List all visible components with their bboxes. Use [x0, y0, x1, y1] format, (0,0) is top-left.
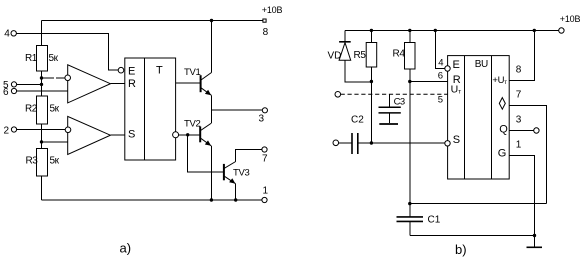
- TV1 base bar: [200, 75, 202, 92]
- flip-flop U1 box: [125, 58, 176, 160]
- node junction ground: [533, 234, 536, 237]
- timer E bubble: [445, 66, 450, 71]
- TV2 emitter arrow: [205, 140, 211, 145]
- svg-text:VD: VD: [328, 51, 342, 62]
- TV2 base bar: [199, 127, 201, 143]
- node junction TV2 base / TV3 branch: [186, 133, 189, 136]
- node junction TV3 emitter / bottom rail: [234, 198, 237, 201]
- node junction R5/VD bottom: [370, 80, 373, 83]
- resistor R4: [393, 30, 416, 203]
- terminal 6: [11, 88, 16, 93]
- terminal 7: [262, 147, 267, 152]
- flip-flop Q bubble: [173, 132, 179, 138]
- wire terminal2 to comparator2 bubble: [17, 129, 66, 131]
- svg-text:S: S: [128, 129, 135, 141]
- terminal 2: [11, 127, 16, 132]
- wire top +10V rail b: [345, 29, 559, 31]
- node junction R4 bottom: [408, 80, 411, 83]
- node junction TV2 emitter / bottom rail: [210, 198, 213, 201]
- wire pin 1 to ground: [509, 156, 534, 236]
- svg-text:5к: 5к: [50, 156, 60, 167]
- node junction pin8 / rail: [533, 29, 536, 32]
- transistor TV3: [224, 150, 262, 200]
- TV3 emitter: [224, 176, 235, 184]
- terminal Q output: [534, 128, 539, 133]
- wire terminal6 to comparator1 input: [17, 90, 68, 92]
- svg-text:R5: R5: [354, 50, 367, 61]
- svg-text:R4: R4: [393, 49, 406, 60]
- svg-text:TV1: TV1: [184, 67, 201, 78]
- TV1 emitter arrow: [205, 90, 211, 95]
- svg-text:2: 2: [4, 126, 10, 137]
- wire top +10V rail a: [42, 20, 263, 22]
- TV1 collector: [201, 73, 212, 81]
- svg-text:+10В: +10В: [262, 5, 283, 15]
- ground symbol: [527, 236, 543, 248]
- diamond output symbol: [499, 98, 505, 110]
- svg-text:C2: C2: [351, 115, 364, 126]
- svg-text:5к: 5к: [49, 53, 59, 64]
- node junction C2 / R5 bus: [370, 141, 373, 144]
- wire flipflop out1 to TV1 base: [176, 82, 200, 84]
- TV2 collector: [201, 123, 212, 130]
- resistor R3: [37, 149, 48, 177]
- svg-text:R3: R3: [26, 156, 39, 167]
- wire comparator2 output to S input: [110, 134, 124, 136]
- terminal 4: [11, 31, 16, 36]
- svg-text:6: 6: [3, 87, 9, 98]
- C3 ground bar: [379, 123, 398, 125]
- svg-text:C3: C3: [394, 97, 405, 108]
- svg-text:S: S: [453, 134, 460, 146]
- svg-text:Q: Q: [499, 124, 508, 136]
- svg-text:T: T: [156, 65, 163, 77]
- terminal control input: [335, 92, 341, 98]
- svg-text:5к: 5к: [50, 104, 60, 115]
- node junction R1/R2 to comp1: [40, 76, 43, 79]
- node junction terminal5/bus: [40, 83, 43, 86]
- node junction C1 top: [408, 202, 411, 205]
- wire terminal4 to E input: [16, 33, 118, 70]
- wire C1 top to pin7 vertical: [410, 203, 547, 205]
- wire pin 7 to C1 top: [509, 105, 546, 203]
- svg-text:R1: R1: [25, 53, 38, 64]
- wire C1 bottom to ground: [410, 235, 535, 237]
- flip-flop divider: [143, 58, 145, 160]
- capacitor C2: [333, 115, 445, 155]
- VD anode wire: [344, 30, 346, 41]
- svg-text:TV2: TV2: [184, 118, 201, 129]
- svg-text:a): a): [120, 241, 132, 256]
- wire pin 8 to rail: [509, 30, 534, 80]
- wire left bus vertical through R1 R2 R3: [41, 21, 43, 201]
- svg-text:3: 3: [516, 114, 522, 125]
- svg-text:7: 7: [516, 89, 522, 100]
- svg-text:8: 8: [516, 64, 522, 75]
- node junction R4 top: [408, 29, 411, 32]
- VD bottom wire: [345, 60, 371, 82]
- svg-text:R: R: [128, 78, 136, 90]
- wire terminal5 to bus: [17, 83, 42, 85]
- wire R4 node to R pin: [410, 81, 448, 83]
- TV3 emitter arrow: [229, 178, 235, 183]
- svg-text:R2: R2: [25, 104, 38, 115]
- wire dashed control to pin 5: [341, 93, 448, 95]
- wire Q to TV2 base: [179, 134, 200, 136]
- terminal 1: [262, 197, 267, 202]
- svg-text:4: 4: [438, 58, 443, 69]
- op-amp comparator1: [68, 65, 111, 103]
- wire comparator1 output to R input: [110, 83, 124, 85]
- wire junction down to TV3 base: [188, 135, 223, 172]
- terminal square +10V a: [263, 19, 266, 22]
- resistor R2: [37, 96, 48, 124]
- diode VD: [328, 30, 372, 82]
- wire pin 3 to terminal: [509, 130, 534, 132]
- svg-text:3: 3: [259, 114, 265, 125]
- wire rail to E pin b: [435, 30, 445, 68]
- svg-text:1: 1: [263, 186, 269, 197]
- terminal C2 input: [333, 140, 339, 146]
- terminal +10V b: [559, 28, 564, 33]
- wire emitter node to terminal 3: [212, 109, 263, 111]
- VD triangle: [339, 43, 351, 61]
- timer S bubble: [445, 141, 450, 146]
- svg-text:5: 5: [438, 94, 443, 105]
- svg-text:TV3: TV3: [233, 168, 250, 179]
- node junction E wire / rail: [434, 29, 437, 32]
- svg-text:7: 7: [262, 154, 268, 165]
- svg-text:8: 8: [263, 27, 269, 38]
- svg-text:+10В: +10В: [560, 14, 580, 24]
- wire junction to comparator1 inverting input: [42, 77, 66, 79]
- VD cathode bar: [339, 41, 351, 43]
- svg-text:4: 4: [4, 29, 10, 40]
- terminal 5: [11, 82, 16, 87]
- wire junction to comparator2 input: [42, 141, 68, 143]
- capacitor C1: [397, 204, 441, 236]
- svg-text:C1: C1: [428, 215, 441, 226]
- node junction TV1 collector / rail: [210, 19, 213, 22]
- svg-text:6: 6: [438, 71, 443, 82]
- svg-text:BU: BU: [475, 59, 488, 70]
- op-amp comparator2: [68, 116, 111, 154]
- wire bottom rail a: [42, 199, 263, 201]
- svg-text:b): b): [455, 242, 467, 257]
- transistor TV1: [184, 21, 212, 111]
- node junction R2/R3 to comp2: [40, 140, 43, 143]
- comparator2 inverting bubble: [65, 127, 71, 133]
- TV3 base bar: [223, 164, 225, 180]
- timer divider 1: [464, 56, 466, 179]
- svg-text:G: G: [498, 148, 507, 160]
- transistor TV2: [184, 110, 211, 200]
- terminal 3: [262, 108, 267, 113]
- comparator1 inverting bubble: [65, 75, 71, 81]
- TV1 emitter: [201, 88, 212, 96]
- node junction R5 top: [370, 29, 373, 32]
- timer U2 box: [448, 56, 510, 179]
- flip-flop E bubble: [118, 67, 124, 73]
- timer divider 2: [491, 56, 493, 179]
- TV2 emitter: [201, 138, 212, 146]
- resistor R1: [37, 46, 48, 72]
- TV3 collector: [224, 162, 235, 169]
- svg-text:E: E: [128, 66, 135, 78]
- svg-text:E: E: [453, 59, 460, 71]
- capacitor C3: [379, 94, 405, 124]
- resistor R5: [354, 30, 377, 143]
- svg-text:1: 1: [516, 139, 522, 150]
